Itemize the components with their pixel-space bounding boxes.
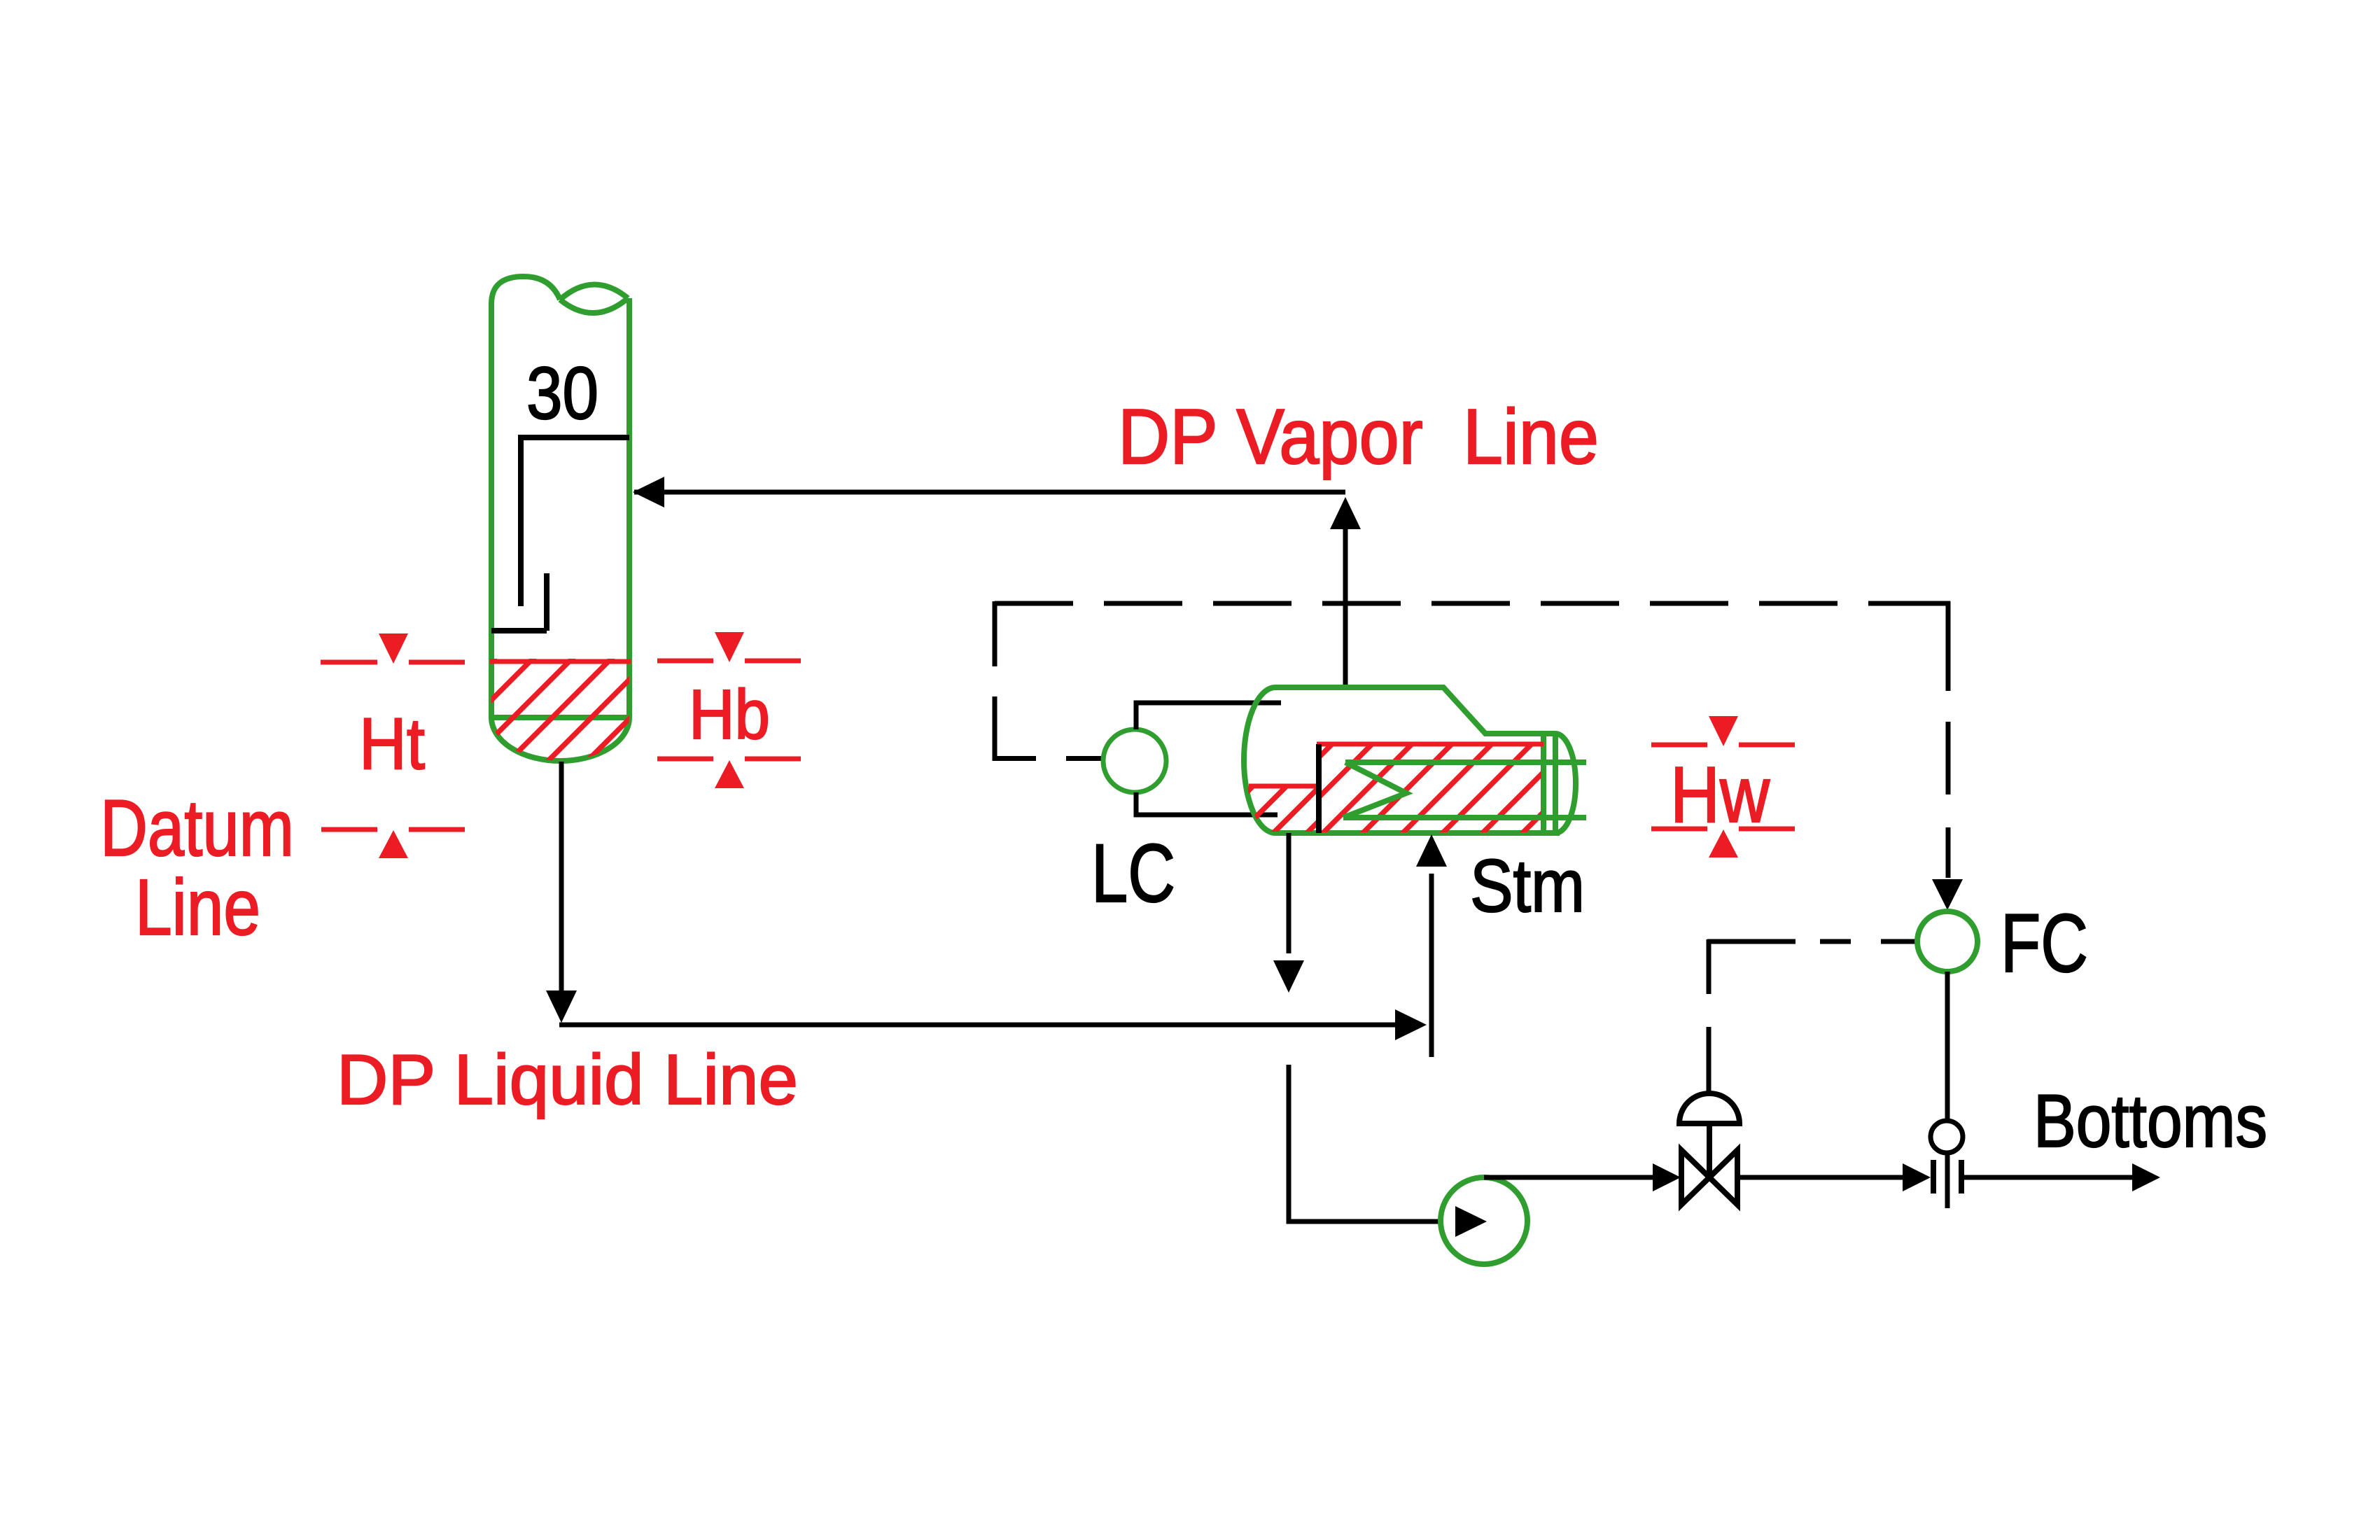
column sump liquid hatch	[322, 609, 818, 791]
orifice flange right	[1959, 1160, 1964, 1193]
orifice flange left	[1931, 1160, 1936, 1193]
DP liquid line horizontal wire	[559, 1023, 1408, 1028]
column C-1 top break ellipse	[560, 284, 628, 313]
dashed signal wire FC drop	[1946, 601, 1951, 878]
svg-text:Ht: Ht	[359, 703, 425, 785]
Hw lower level marker	[1651, 827, 1795, 858]
column C-1 shell right wall	[626, 298, 632, 718]
column C-1 bottom head weld line	[491, 715, 629, 720]
valve stem	[1707, 1123, 1712, 1177]
svg-text:Stm: Stm	[1470, 843, 1585, 927]
svg-text:30: 30	[526, 352, 598, 435]
Hw upper level marker	[1651, 716, 1795, 748]
arrow up at vapor corner	[1330, 497, 1361, 529]
reboiler liquid level line over weir	[1317, 742, 1543, 747]
dashed signal wire LC drop	[995, 601, 1103, 761]
arrow into column	[633, 477, 664, 507]
arrow into pump suction	[1455, 1206, 1487, 1237]
reboiler weir	[1316, 744, 1322, 833]
Ht upper level marker	[321, 633, 465, 665]
LC lower tap wire	[1136, 792, 1277, 815]
reboiler boot hatch left of weir	[1178, 721, 1419, 861]
reboiler channel end cap	[1555, 734, 1576, 833]
svg-text:Line: Line	[135, 863, 260, 951]
reboiler tube sheet	[1541, 734, 1546, 833]
arrow down on reboiler drain	[1273, 960, 1304, 993]
dashed signal wire to valve actuator	[1707, 939, 1917, 1093]
column C-1 bottom head	[491, 717, 629, 761]
arrow right at DP liquid end	[1395, 1009, 1427, 1040]
svg-text:Hb: Hb	[689, 675, 770, 754]
svg-text:LC: LC	[1091, 827, 1175, 920]
svg-text:Bottoms: Bottoms	[2033, 1079, 2267, 1163]
arrow before control valve	[1653, 1163, 1681, 1191]
datum level marker	[321, 827, 465, 859]
reboiler boot level line left of weir	[1249, 784, 1319, 789]
svg-text:DP Vapor Line: DP Vapor Line	[1118, 393, 1599, 480]
pump discharge wire	[1484, 1175, 1656, 1180]
reboiler E-1 shell	[1244, 687, 1560, 833]
arrow bottoms product	[2132, 1163, 2160, 1191]
svg-text:Hw: Hw	[1670, 750, 1770, 839]
reboiler drain upper wire	[1287, 833, 1291, 953]
arrow up into reboiler	[1416, 834, 1447, 867]
arrow into FC	[1932, 879, 1963, 910]
column bottoms outlet wire	[559, 762, 564, 1007]
FC sensing wire	[1945, 972, 1950, 1208]
control valve body	[1681, 1150, 1737, 1205]
pipe valve to orifice wire	[1737, 1175, 1905, 1180]
LC upper tap wire	[1136, 703, 1281, 729]
steam tube lower pass	[1343, 815, 1586, 820]
vapor line horizontal wire	[634, 490, 1345, 495]
svg-text:DP Liquid Line: DP Liquid Line	[337, 1041, 798, 1119]
steam tube U-bend	[1343, 762, 1406, 818]
pump P-1 casing	[1441, 1177, 1527, 1264]
arrow down at outlet corner	[546, 990, 577, 1023]
svg-text:FC: FC	[2001, 897, 2088, 990]
dashed signal wire horizontal	[995, 601, 1950, 606]
steam tube upper pass	[1345, 759, 1586, 765]
Hb lower level marker	[657, 757, 801, 789]
column sump liquid level line	[490, 659, 631, 664]
reboiler liquid hatch right of weir	[1222, 714, 1641, 854]
bottom seal pan riser	[544, 573, 549, 631]
reboiler drain lower wire to pump	[1289, 1065, 1446, 1221]
valve diaphragm actuator	[1679, 1093, 1739, 1123]
FC instrument circle	[1917, 911, 1977, 972]
tray 30 downcomer	[518, 437, 524, 606]
bottoms product wire	[1964, 1175, 2134, 1180]
bottom seal pan floor	[491, 628, 547, 633]
reboiler feed riser wire	[1429, 874, 1434, 1057]
svg-text:Datum: Datum	[100, 784, 294, 873]
Hb upper level marker	[657, 632, 801, 664]
tray 30 floor	[518, 435, 629, 440]
LC instrument circle	[1103, 729, 1166, 792]
column C-1 shell left wall	[491, 276, 560, 718]
arrow before orifice	[1903, 1163, 1931, 1191]
orifice tap circle	[1931, 1121, 1963, 1153]
vapor riser wire from reboiler	[1343, 518, 1348, 687]
